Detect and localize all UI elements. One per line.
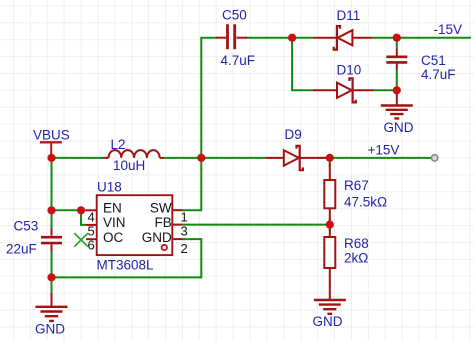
svg-text:VIN: VIN bbox=[103, 215, 126, 230]
endpoint dot +15V bbox=[431, 155, 437, 161]
ground under C51 bbox=[381, 91, 413, 118]
svg-text:GND: GND bbox=[35, 322, 65, 337]
inductor L2 bbox=[103, 150, 164, 158]
wire SW bbox=[183, 158, 202, 210]
svg-text:C53: C53 bbox=[14, 219, 39, 234]
svg-text:D9: D9 bbox=[285, 127, 302, 142]
svg-text:R67: R67 bbox=[344, 178, 369, 193]
pin dot (GND pin flag) bbox=[162, 245, 167, 250]
ic U18 MT3608L body bbox=[97, 195, 173, 255]
svg-text:-15V: -15V bbox=[434, 22, 463, 37]
ground under C53 bbox=[36, 293, 68, 321]
svg-text:22uF: 22uF bbox=[6, 242, 37, 257]
svg-text:4: 4 bbox=[88, 210, 95, 225]
wire node A top bbox=[246, 37, 314, 39]
wire D10 to C51 bottom bbox=[374, 89, 397, 91]
capacitor C50 bbox=[216, 24, 248, 49]
svg-text:FB: FB bbox=[155, 215, 172, 230]
wire C53 bottom to gnd junction bbox=[51, 252, 53, 278]
junction FB node bbox=[326, 221, 334, 229]
svg-text:U18: U18 bbox=[97, 180, 122, 195]
pin 6 OC stub bbox=[86, 238, 96, 240]
wire EN bbox=[52, 209, 87, 211]
power port VBUS bbox=[40, 142, 62, 158]
diode D11 bbox=[314, 26, 373, 49]
wire FB bbox=[183, 224, 330, 226]
svg-text:EN: EN bbox=[103, 200, 122, 215]
svg-text:VBUS: VBUS bbox=[33, 128, 70, 143]
svg-text:4.7uF: 4.7uF bbox=[421, 67, 456, 82]
wire D11 to -15V rail bbox=[372, 37, 471, 39]
svg-text:GND: GND bbox=[313, 314, 343, 329]
svg-text:1: 1 bbox=[181, 210, 188, 225]
pin 5 VIN stub bbox=[86, 224, 96, 226]
junction -15V node bbox=[393, 34, 401, 42]
junction C53 bottom node bbox=[47, 273, 55, 281]
svg-text:MT3608L: MT3608L bbox=[97, 258, 155, 273]
svg-text:L2: L2 bbox=[111, 137, 126, 152]
wire node A down branch bbox=[292, 38, 313, 91]
junction VBUS node bbox=[47, 154, 55, 162]
svg-text:47.5kΩ: 47.5kΩ bbox=[344, 195, 387, 210]
svg-text:GND: GND bbox=[384, 120, 414, 135]
wire C53 gnd stub bbox=[51, 277, 53, 294]
wire R67 bottom to FB node bbox=[329, 218, 331, 231]
svg-text:GND: GND bbox=[142, 230, 172, 245]
capacitor C51 bbox=[386, 49, 407, 71]
wire C51 top lead bbox=[396, 38, 398, 49]
capacitor C53 bbox=[41, 229, 62, 252]
junction C53 top node bbox=[47, 206, 55, 214]
junction EN node bbox=[77, 206, 85, 214]
wire VBUS column bbox=[51, 158, 53, 229]
svg-text:6: 6 bbox=[88, 237, 95, 252]
resistor R68 bbox=[324, 228, 335, 300]
svg-text:10uH: 10uH bbox=[113, 158, 145, 173]
resistor R67 bbox=[324, 163, 335, 221]
wire C51 bottom lead bbox=[396, 70, 398, 90]
wire GND return bbox=[52, 239, 202, 277]
no-connect X on OC bbox=[74, 233, 88, 247]
svg-text:2: 2 bbox=[181, 241, 188, 256]
diode D10 bbox=[313, 78, 374, 102]
svg-text:D10: D10 bbox=[337, 63, 362, 78]
svg-text:4.7uF: 4.7uF bbox=[221, 53, 256, 68]
svg-text:3: 3 bbox=[181, 224, 188, 239]
svg-text:+15V: +15V bbox=[368, 143, 400, 158]
pin 1 SW stub bbox=[172, 209, 183, 211]
svg-text:OC: OC bbox=[103, 230, 124, 245]
wire C50 branch vertical bbox=[201, 38, 215, 158]
svg-text:C51: C51 bbox=[421, 53, 446, 68]
svg-text:2kΩ: 2kΩ bbox=[344, 251, 368, 266]
junction node A bbox=[288, 34, 296, 42]
svg-text:D11: D11 bbox=[337, 8, 361, 23]
diode D9 bbox=[266, 146, 330, 170]
wire VIN bbox=[81, 210, 86, 225]
svg-text:R68: R68 bbox=[344, 236, 369, 251]
pin 2 GND stub bbox=[172, 238, 183, 240]
junction C51 bottom node bbox=[393, 86, 401, 94]
wire main +15V rail bbox=[52, 157, 435, 159]
junction SW node bbox=[197, 154, 205, 162]
svg-text:C50: C50 bbox=[222, 8, 247, 23]
wire R67 top bbox=[329, 158, 331, 167]
pin 4 EN stub bbox=[86, 209, 96, 211]
svg-text:SW: SW bbox=[150, 200, 172, 215]
junction +15V / R67 node bbox=[326, 154, 334, 162]
pin 3 FB stub bbox=[172, 224, 183, 226]
ground under R68 bbox=[314, 300, 346, 314]
